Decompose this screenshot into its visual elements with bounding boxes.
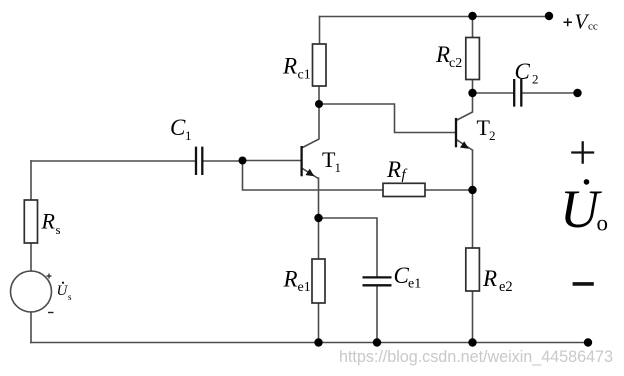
label T1 <box>322 147 341 175</box>
svg-text:c1: c1 <box>298 68 311 83</box>
resistor Rs <box>24 200 37 243</box>
transistor T1 base bar <box>300 146 302 176</box>
svg-text:R: R <box>41 209 56 234</box>
resistor Rc1 <box>313 44 327 86</box>
wire C1 node down and Rf left <box>243 161 384 191</box>
resistor Rf <box>383 183 425 196</box>
svg-text:1: 1 <box>185 128 192 143</box>
svg-text:R: R <box>435 42 450 67</box>
wire C1 to base node <box>203 160 243 162</box>
wire Re1 bottom <box>318 303 320 343</box>
svg-text:1: 1 <box>335 160 342 175</box>
wire left input top <box>30 161 32 200</box>
wire source to bottom rail <box>30 312 32 343</box>
node T2 emitter / Rf <box>468 186 476 194</box>
source Us circle <box>11 271 52 312</box>
label Uo <box>560 179 608 239</box>
svg-text:e1: e1 <box>408 277 421 292</box>
node Re2 bottom <box>468 338 476 346</box>
node T1 emitter <box>314 214 322 222</box>
wire C2 right <box>523 92 578 94</box>
resistor Re1 <box>312 259 325 303</box>
wire bottom rail <box>31 342 588 344</box>
svg-text:C: C <box>515 59 531 84</box>
node output bottom terminal <box>584 338 592 346</box>
wire T2 collector <box>457 93 473 120</box>
label Re2 <box>482 266 513 295</box>
svg-text:R: R <box>482 266 497 291</box>
svg-text:C: C <box>170 115 186 140</box>
wire Re1 top <box>318 218 320 259</box>
wire Ce1 bottom <box>376 286 378 343</box>
node C2 output terminal <box>573 89 581 97</box>
wire Rc2 branch top <box>472 17 474 38</box>
capacitor Ce1 plates <box>363 277 392 285</box>
svg-text:2: 2 <box>489 128 496 143</box>
resistor Rc2 <box>466 38 480 80</box>
transistor T2 emitter arrow <box>460 141 469 149</box>
node C1-base junction <box>239 157 247 165</box>
svg-text:s: s <box>68 292 72 302</box>
svg-text:R: R <box>282 54 297 79</box>
wire Rc2 bottom <box>472 80 474 94</box>
wire input to C1 <box>31 160 195 162</box>
wire Rc1 branch top <box>319 17 321 45</box>
wire T1 collector node to T2 base <box>319 104 456 133</box>
resistor Re2 <box>466 248 480 291</box>
svg-text:https://blog.csdn.net/weixin_4: https://blog.csdn.net/weixin_44586473 <box>339 348 613 366</box>
label Ce1 <box>394 263 422 292</box>
svg-text:R: R <box>386 157 401 182</box>
svg-text:c2: c2 <box>449 56 462 71</box>
label output plus <box>571 141 594 164</box>
transistor T2 base bar <box>455 118 457 147</box>
svg-text:e1: e1 <box>298 280 311 295</box>
label output minus <box>573 282 594 286</box>
wire top rail <box>320 16 550 18</box>
label Rs <box>41 209 61 238</box>
wire T1 base <box>243 160 301 162</box>
label Rc1 <box>282 54 311 83</box>
capacitor C2 plates <box>514 79 521 107</box>
svg-text:o: o <box>597 211 609 236</box>
wire T1 emitter <box>303 169 319 219</box>
svg-text:R: R <box>283 267 298 292</box>
label T2 <box>477 115 496 143</box>
wire T1 emitter node to Ce1 <box>319 218 378 277</box>
label Us <box>57 282 73 302</box>
source minus sign <box>48 312 54 314</box>
label +Vcc <box>564 10 598 34</box>
label Rf <box>386 157 408 183</box>
label C2 <box>515 59 539 87</box>
svg-text:U: U <box>57 283 69 299</box>
svg-text:2: 2 <box>532 72 539 87</box>
label Rc2 <box>435 42 462 71</box>
node T2 collector <box>468 89 476 97</box>
wire Rs to source <box>30 243 32 271</box>
node Ce1 bottom <box>373 338 381 346</box>
label Re1 <box>283 267 311 296</box>
node T1 collector <box>315 100 323 108</box>
source plus sign <box>47 274 52 279</box>
node Vcc terminal <box>545 12 553 20</box>
wire Rc1 bottom to T1 collector <box>303 86 320 148</box>
svg-text:cc: cc <box>588 21 598 33</box>
node Re1 bottom <box>314 338 322 346</box>
label C1 <box>170 115 192 143</box>
wire C2 left <box>473 92 514 94</box>
transistor T1 emitter arrow <box>306 169 315 177</box>
node Vcc rail junction <box>468 12 476 20</box>
wire Re2 top <box>472 190 474 248</box>
wire T2 emitter <box>457 140 473 190</box>
svg-text:s: s <box>56 222 61 237</box>
svg-text:e2: e2 <box>499 279 513 295</box>
capacitor C1 plates <box>196 147 202 175</box>
wire Re2 bottom <box>472 291 474 343</box>
wire Rf right to T2 emitter node <box>425 189 473 191</box>
